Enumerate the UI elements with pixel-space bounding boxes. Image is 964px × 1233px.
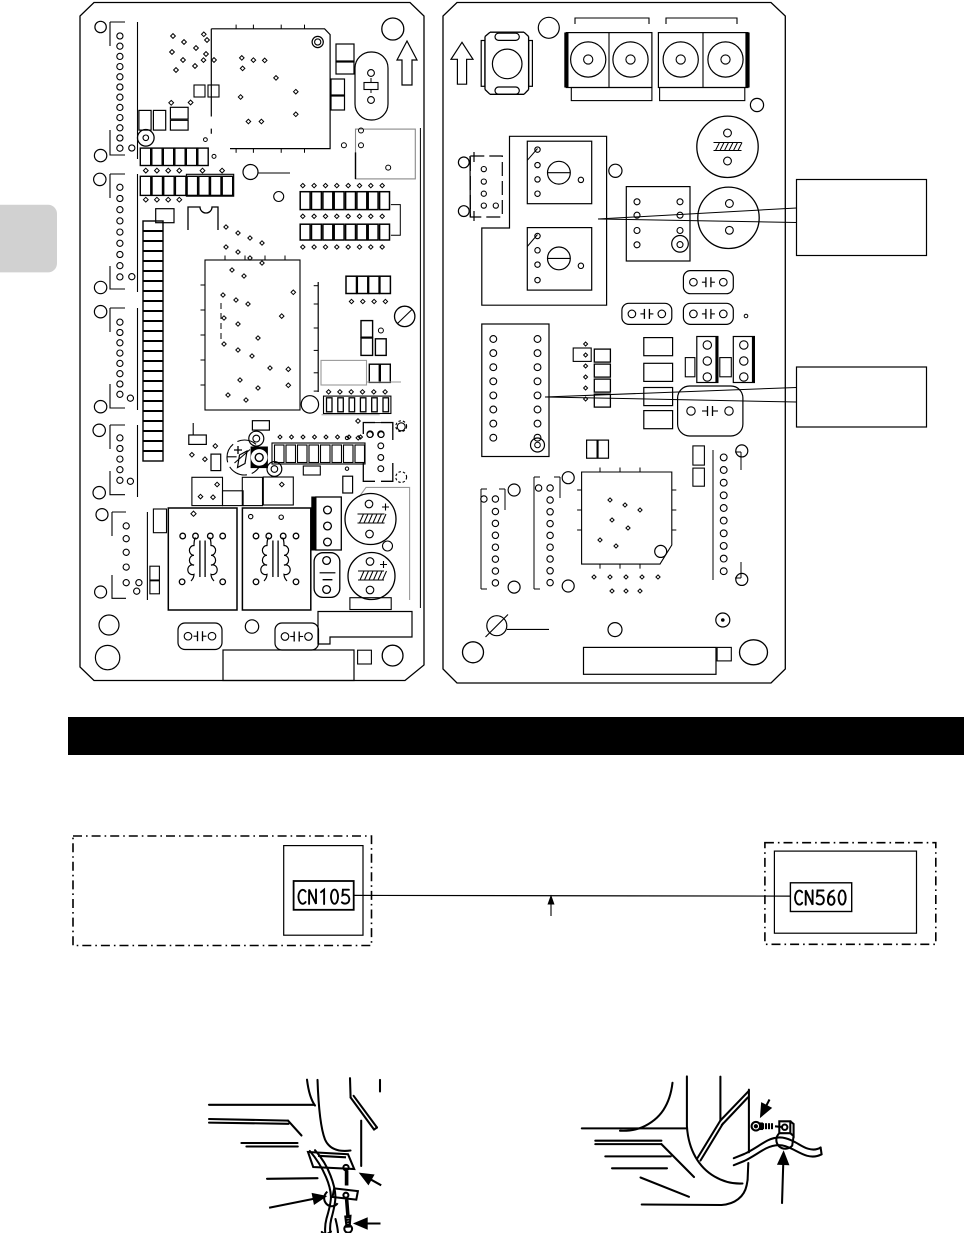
IC U2 right-mid rectangle <box>341 128 415 179</box>
switching regulator sub-box 1 <box>527 141 591 204</box>
connector CN560 label box <box>790 883 851 912</box>
cord holder plate left sketch <box>308 1152 354 1186</box>
electrolytic capacitor CE2 <box>348 553 395 600</box>
unit body edges right sketch <box>620 1076 749 1205</box>
dot right of CF5 <box>744 314 748 318</box>
capacitor CF5 stadium <box>683 303 733 324</box>
connector group3 bracket+pins <box>110 308 138 410</box>
small rect mid <box>211 454 221 471</box>
capacitor pair 2 right of U1 <box>331 79 345 110</box>
switching regulator sub-box 2 <box>527 228 591 291</box>
orientation arrow left board <box>397 41 417 85</box>
outdoor board solid box <box>774 851 916 933</box>
capacitor CF1 stadium <box>178 623 222 650</box>
cord clamp left sketch <box>324 1188 358 1206</box>
screw hole top-right <box>382 18 404 40</box>
black bar + pin strip right of T2 <box>312 497 342 550</box>
screw hole bottom-left small <box>99 615 119 635</box>
pin header row mid <box>324 396 391 413</box>
IC U51 center bottom <box>577 468 676 569</box>
indoor board solid box <box>284 846 363 936</box>
connector right col (10 pins) <box>713 445 748 586</box>
arrow to screw right sketch <box>762 1100 769 1114</box>
terminal block TB2 top bracket <box>666 18 737 24</box>
connector bottom-left B (8 pins) <box>534 472 574 592</box>
connector group2 bracket+pins <box>110 174 138 292</box>
ring pad above black square <box>249 431 264 446</box>
indoor unit corner sketch right: louver lines <box>582 1128 694 1196</box>
right PCB board outline <box>443 3 785 684</box>
small pad right of label <box>717 647 731 661</box>
rect under CE2 <box>350 598 391 610</box>
connector CN105 label box <box>294 881 354 910</box>
scattered vias mid-right <box>279 290 405 438</box>
capacitor pair right of U1 <box>336 44 354 74</box>
screw hole bottom-left large <box>95 645 119 669</box>
arrow to screw left sketch <box>358 1222 380 1224</box>
capacitor pair C11/C12 <box>361 321 386 356</box>
electrolytic capacitor CE4 <box>698 187 759 248</box>
component rects center row <box>223 477 294 506</box>
via diamond row above header <box>278 435 363 439</box>
wide rect bottom right of board <box>318 612 412 645</box>
outdoor unit dash-dot boundary <box>765 843 936 945</box>
via diamond row below quad <box>349 299 387 303</box>
pad ladder of 4 <box>594 349 610 407</box>
via diamond col <box>584 342 588 401</box>
IR receiver circle with diode symbol <box>227 440 263 475</box>
IC U3 right boundary ticks <box>314 282 319 392</box>
column of 4 squares <box>644 338 673 429</box>
screw hole bottom-right <box>382 645 403 666</box>
screw right sketch <box>752 1122 782 1131</box>
connector CN left (4 pins) <box>458 152 502 221</box>
label CN560 <box>795 890 846 905</box>
via diamonds near header row <box>326 390 387 394</box>
connector CN1 bracket+pins (left col group1) <box>110 22 138 159</box>
part with stem upper-left <box>189 423 207 444</box>
small pad right of label <box>358 650 372 664</box>
pads right pair <box>693 446 705 486</box>
arrow to holder hole left sketch <box>363 1175 381 1185</box>
via diamond row between arrays <box>143 168 224 173</box>
small rect mid <box>573 348 591 361</box>
relay housing with notch top <box>156 207 218 230</box>
silk vertical line near right edge <box>419 128 421 608</box>
transformer T1 <box>168 508 237 610</box>
via diamonds above U1 <box>170 34 217 73</box>
small rect pair right of header <box>303 466 320 475</box>
page margin thumb tab <box>0 205 57 273</box>
component rect pair left-center <box>192 477 223 505</box>
callout box 2 <box>797 367 927 427</box>
capacitor CF4 stadium <box>622 303 672 324</box>
capacitor C20 rounded with symbol <box>314 553 340 598</box>
screw hole bottom-right oval <box>740 640 768 665</box>
indoor unit dash-dot boundary <box>73 836 372 946</box>
resistor array row B (8) <box>140 174 233 196</box>
via diamond rows around arrays <box>301 183 385 187</box>
LED D1 circle below arrays <box>243 165 290 180</box>
hole right of terminals <box>750 98 763 111</box>
silk label box bottom right board <box>584 647 717 674</box>
connector header row (8 vertical pads) <box>272 443 365 464</box>
pad circle right <box>274 192 284 202</box>
screw left sketch <box>344 1200 352 1233</box>
mounting holes left edge <box>93 21 108 598</box>
shielded connector black square <box>251 447 267 468</box>
via diamond row under array B <box>143 197 181 202</box>
left PCB board outline <box>80 3 424 681</box>
pad circle left of header <box>301 396 318 413</box>
power cord right sketch <box>734 1137 822 1165</box>
IC U1 large top-center <box>211 25 330 153</box>
silk label box bottom <box>223 650 354 681</box>
hole bottom-center <box>245 620 258 633</box>
power cord left sketch <box>310 1150 338 1233</box>
resistor array rows right (two rows of 8) <box>300 192 389 210</box>
diamonds inside U3 <box>221 293 272 402</box>
square pair center <box>587 440 609 458</box>
cord clamp right sketch <box>776 1121 793 1148</box>
relay pair right with pins <box>685 337 754 383</box>
component block C/R cluster upper-left <box>139 85 219 130</box>
diamonds inside U1 <box>201 32 298 158</box>
SMD ladder (tall stack of pads) <box>143 221 163 461</box>
connector bottom-left A (8 pins) <box>481 484 520 593</box>
arrow to clamp right sketch <box>782 1156 784 1204</box>
dashed trace line <box>220 303 222 340</box>
vias scatter left of LED <box>190 444 218 462</box>
electrolytic capacitor CE1 <box>345 494 396 545</box>
screw hole mid-right with slash <box>395 306 415 326</box>
label CN105 <box>298 890 349 905</box>
capacitor CF6 large stadium <box>678 386 743 436</box>
terminal block TB1 <box>565 33 652 88</box>
orientation arrow right board <box>451 42 473 84</box>
callout box 1 <box>797 180 927 256</box>
diamond scatter center-left <box>224 225 264 278</box>
connector bracket right edge <box>343 421 410 600</box>
gray trace under header <box>322 414 380 416</box>
terminal block TB2 <box>658 33 749 88</box>
hole bottom-center <box>608 623 622 637</box>
diamonds in/around U51 <box>592 498 660 593</box>
small hole right <box>383 541 393 551</box>
connector CN5xx mid (two cols) <box>626 187 690 261</box>
hole mid <box>609 164 622 177</box>
cable pointer arrow <box>548 896 554 916</box>
screw hole bottom-left <box>463 642 484 663</box>
shield block outline (L shape) <box>482 136 607 305</box>
electrolytic capacitor CE3 <box>697 116 758 177</box>
component block mid-right with sub parts <box>321 360 401 385</box>
connecting cable wire <box>354 894 791 897</box>
screw symbol bottom-left <box>486 615 550 638</box>
capacitor CF3 stadium <box>683 271 733 294</box>
leader lines callout 2 <box>545 388 797 403</box>
small rect pair left of transformers <box>150 509 167 594</box>
terminal base plates <box>571 88 745 101</box>
transformer T2 <box>242 508 310 610</box>
IC U3 middle large <box>201 256 301 411</box>
bracket joining array rows <box>391 205 400 236</box>
connector large left (two cols of 8) <box>482 324 549 457</box>
ring pad right of black square <box>267 462 282 477</box>
indoor unit corner sketch left: louver lines <box>209 1105 318 1179</box>
resistor array row A (6) <box>140 148 208 165</box>
small rect above black square <box>252 421 269 430</box>
buzzer/relay can top-left <box>481 32 532 94</box>
capacitor CF2 stadium <box>275 623 319 650</box>
resistor quad row <box>346 276 390 293</box>
arrow to clamp left sketch <box>269 1197 322 1208</box>
hole top-center <box>538 17 559 38</box>
terminal block TB1 top bracket <box>575 18 649 24</box>
unit body edges left sketch <box>307 1078 380 1166</box>
connector group4 bracket+pins <box>110 425 138 497</box>
trimmer VR1 <box>138 130 155 147</box>
connector group5 bracket+pins <box>112 512 147 600</box>
hole bottom-right with dot <box>716 613 730 627</box>
crystal X1 stadium <box>355 52 388 120</box>
black section banner <box>68 717 964 755</box>
leader lines callout 1 <box>598 208 797 223</box>
